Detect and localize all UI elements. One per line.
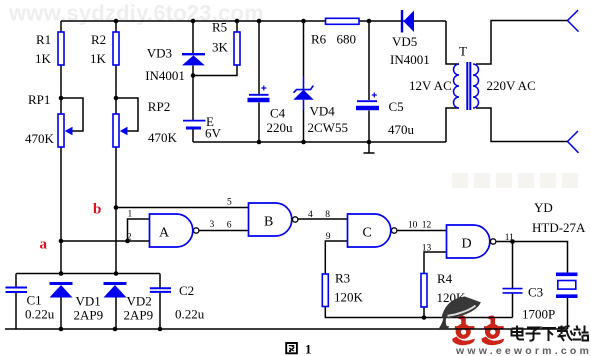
svg-text:R1: R1 xyxy=(36,32,51,47)
svg-text:VD4: VD4 xyxy=(310,104,336,119)
svg-text:1700P: 1700P xyxy=(522,307,555,322)
svg-text:T: T xyxy=(459,44,467,59)
svg-text:1K: 1K xyxy=(90,51,107,66)
svg-text:YD: YD xyxy=(534,200,553,215)
svg-text:4: 4 xyxy=(308,210,313,220)
svg-text:C1: C1 xyxy=(27,293,42,308)
svg-text:12V AC: 12V AC xyxy=(409,78,452,93)
svg-text:RP2: RP2 xyxy=(148,99,170,114)
svg-text:1: 1 xyxy=(305,342,312,356)
svg-text:2AP9: 2AP9 xyxy=(74,308,104,323)
svg-text:IN4001: IN4001 xyxy=(390,52,430,67)
svg-text:3K: 3K xyxy=(212,40,229,55)
svg-text:R6: R6 xyxy=(311,32,327,47)
svg-text:10: 10 xyxy=(408,221,418,231)
svg-text:VD3: VD3 xyxy=(147,46,172,61)
svg-text:470u: 470u xyxy=(388,122,415,137)
svg-text:220V AC: 220V AC xyxy=(487,78,536,93)
svg-text:8: 8 xyxy=(325,210,330,220)
svg-text:VD1: VD1 xyxy=(76,294,101,309)
svg-text:R2: R2 xyxy=(91,32,106,47)
svg-text:5: 5 xyxy=(227,198,232,208)
svg-text:A: A xyxy=(159,226,170,241)
svg-text:2: 2 xyxy=(127,233,132,243)
svg-text:C: C xyxy=(363,226,372,241)
svg-text:6V: 6V xyxy=(205,126,222,141)
svg-text:a: a xyxy=(40,237,48,253)
svg-text:www.eeworm.com: www.eeworm.com xyxy=(455,345,591,356)
svg-text:12: 12 xyxy=(422,221,432,231)
svg-text:VD2: VD2 xyxy=(127,294,152,309)
svg-text:D: D xyxy=(462,237,472,252)
svg-text:IN4001: IN4001 xyxy=(145,68,185,83)
svg-text:13: 13 xyxy=(422,244,432,254)
svg-text:R5: R5 xyxy=(212,20,227,35)
svg-text:C4: C4 xyxy=(270,106,286,121)
svg-text:0.22u: 0.22u xyxy=(175,307,205,322)
svg-text:220u: 220u xyxy=(267,120,294,135)
svg-text:1: 1 xyxy=(128,210,133,220)
svg-text:VD5: VD5 xyxy=(392,34,417,49)
svg-text:470K: 470K xyxy=(25,131,55,146)
svg-text:0.22u: 0.22u xyxy=(25,307,55,322)
svg-text:RP1: RP1 xyxy=(28,92,50,107)
svg-text:HTD-27A: HTD-27A xyxy=(532,220,586,235)
svg-text:C5: C5 xyxy=(389,99,404,114)
svg-text:b: b xyxy=(93,202,101,218)
svg-text:R3: R3 xyxy=(335,271,350,286)
svg-text:C3: C3 xyxy=(528,285,543,300)
svg-text:R4: R4 xyxy=(437,271,453,286)
svg-text:2AP9: 2AP9 xyxy=(124,308,154,323)
svg-text:11: 11 xyxy=(505,233,514,243)
svg-text:6: 6 xyxy=(227,221,232,231)
svg-text:680: 680 xyxy=(337,32,357,47)
svg-text:2CW55: 2CW55 xyxy=(308,120,348,135)
svg-text:120K: 120K xyxy=(334,290,364,305)
svg-text:3: 3 xyxy=(210,220,215,230)
svg-text:1K: 1K xyxy=(35,51,52,66)
svg-text:B: B xyxy=(264,215,273,230)
svg-text:470K: 470K xyxy=(148,130,178,145)
svg-text:9: 9 xyxy=(326,232,331,242)
svg-text:C2: C2 xyxy=(179,283,194,298)
